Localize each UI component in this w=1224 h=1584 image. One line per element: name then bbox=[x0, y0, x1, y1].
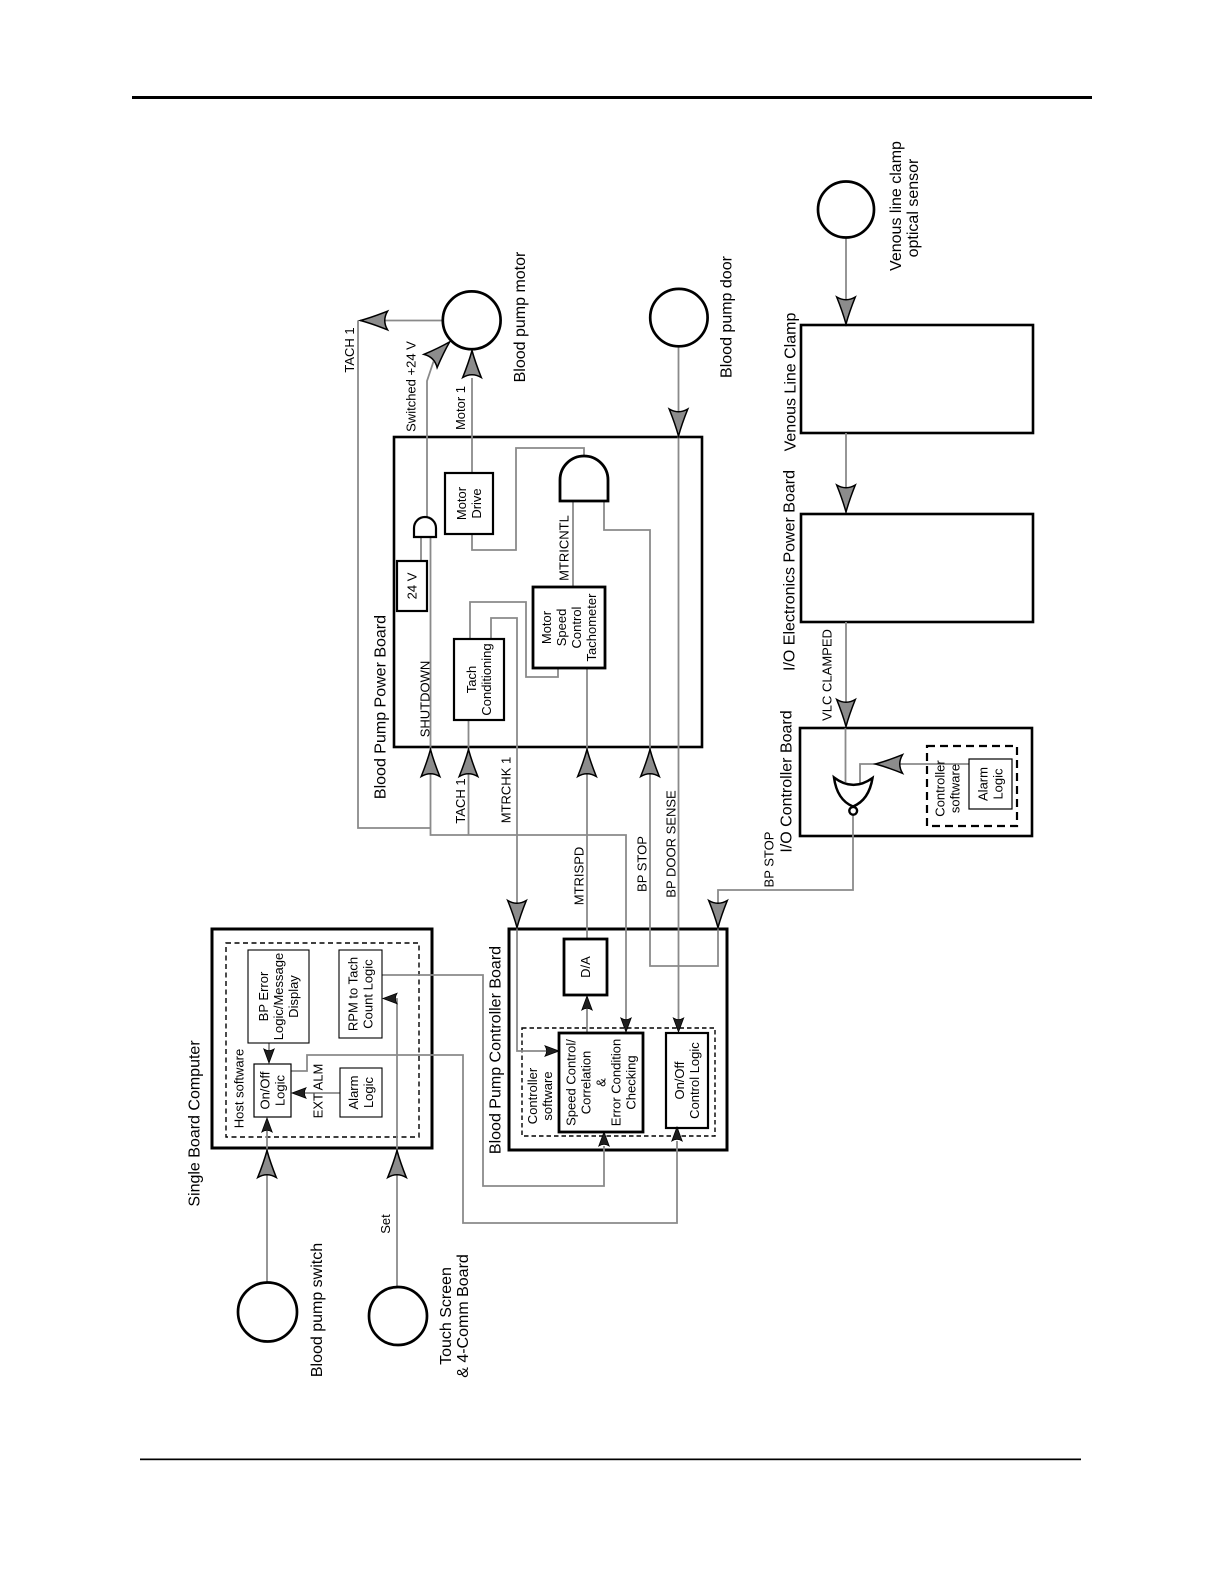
box: Speed Control/Correlation and Error Condition Checking bbox=[559, 1033, 643, 1132]
svg-text:I/O Controller Board: I/O Controller Board bbox=[779, 710, 796, 852]
dashed box: Controller software (I/O controller board) bbox=[927, 746, 1017, 826]
svg-text:MTRCHK 1: MTRCHK 1 bbox=[499, 757, 514, 823]
arrowhead: Switched +24 V into motor (points up-right) bbox=[424, 335, 456, 367]
svg-text:Controller: Controller bbox=[933, 760, 948, 817]
top rule bbox=[132, 96, 1092, 99]
board: I/O Controller Board bbox=[800, 728, 1032, 836]
board: I/O Electronics Power Board bbox=[801, 514, 1033, 622]
svg-text:Conditioning: Conditioning bbox=[479, 643, 494, 715]
box: Motor Speed Control Tachometer bbox=[533, 587, 605, 668]
wire: BP Error to On/Off Logic bbox=[268, 1043, 270, 1052]
svg-text:Set: Set bbox=[378, 1214, 393, 1234]
wire: Venous Line Clamp to I/O Electronics Power Board bbox=[845, 433, 847, 488]
svg-text:Blood Pump Power Board: Blood Pump Power Board bbox=[373, 615, 390, 799]
svg-text:Alarm: Alarm bbox=[976, 767, 991, 801]
svg-text:Single Board Computer: Single Board Computer bbox=[187, 1040, 204, 1207]
circle: Venous line clamp optical sensor bbox=[818, 182, 874, 238]
box: Alarm Logic (I/O controller board) bbox=[969, 759, 1012, 809]
svg-text:BP STOP: BP STOP bbox=[635, 836, 650, 892]
arrowhead: TACH 1 into vertical (points left) bbox=[361, 311, 388, 330]
arrowhead: Set into RPM to Tach Count Logic (points left) bbox=[383, 993, 397, 1003]
svg-text:MTRISPD: MTRISPD bbox=[572, 847, 587, 906]
svg-text:Controller: Controller bbox=[525, 1067, 540, 1124]
arrowhead: Alarm into On/Off Logic (points left) bbox=[292, 1088, 306, 1098]
arrowhead: BP Error into On/Off Logic (points down) bbox=[264, 1049, 274, 1063]
arrowhead: door into power board (points down) bbox=[669, 409, 688, 436]
dashed box: Controller software (controller board) bbox=[522, 1028, 715, 1136]
wire: BP STOP net bbox=[604, 501, 853, 966]
wire: Set (touch screen to RPM logic) bbox=[395, 999, 397, 1288]
circle: Blood pump door bbox=[650, 289, 707, 346]
connector: 24 V bullet bbox=[414, 517, 436, 537]
svg-text:D/A: D/A bbox=[578, 956, 593, 978]
box: On/Off Logic bbox=[254, 1064, 291, 1117]
wire: Alarm Logic to NOR gate bbox=[860, 764, 969, 783]
wire: RPM to Tach Count Logic to Speed Control bbox=[382, 975, 604, 1186]
arrowhead: Motor 1 into motor (points up) bbox=[463, 351, 482, 378]
svg-text:TACH 1: TACH 1 bbox=[342, 327, 357, 372]
svg-text:Blood pump switch: Blood pump switch bbox=[309, 1243, 326, 1377]
arrowhead: MTRISPD into power board (points up) bbox=[578, 750, 597, 777]
arrowhead: door sense into On/Off Control (points down) bbox=[673, 1018, 683, 1032]
arrowhead: BP STOP into power board (points up) bbox=[641, 750, 660, 777]
wire: On/Off Logic to On/Off Control Logic bbox=[291, 1055, 677, 1223]
wire: 24 V bullet to 24 V box bbox=[420, 537, 422, 561]
arrowhead: Alarm Logic to NOR gate (points left) bbox=[876, 755, 903, 774]
svg-text:On/Off: On/Off bbox=[258, 1071, 273, 1109]
board: Venous Line Clamp bbox=[801, 325, 1033, 433]
svg-text:VLC CLAMPED: VLC CLAMPED bbox=[820, 629, 835, 721]
box: On/Off Control Logic bbox=[666, 1033, 708, 1128]
wire: MTRISPD (Motor Speed Control to D/A) bbox=[586, 668, 588, 939]
box: D/A bbox=[564, 939, 607, 995]
svg-text:Correlation: Correlation bbox=[579, 1051, 594, 1115]
svg-text:Control: Control bbox=[569, 606, 584, 648]
svg-text:Motor 1: Motor 1 bbox=[453, 386, 468, 430]
wire: Alarm Logic to On/Off Logic bbox=[303, 1092, 340, 1094]
box: 24 V bbox=[397, 561, 427, 611]
svg-text:MTRICNTL: MTRICNTL bbox=[557, 515, 572, 581]
svg-text:EXT ALM: EXT ALM bbox=[311, 1064, 326, 1119]
svg-text:24 V: 24 V bbox=[405, 572, 420, 599]
svg-text:Error Condition: Error Condition bbox=[609, 1039, 624, 1126]
arrowhead: BP STOP into controller board (points down) bbox=[709, 901, 728, 928]
wire: Switched +24 V bbox=[427, 362, 434, 518]
box: BP Error Logic/Message Display bbox=[248, 950, 309, 1043]
board: Blood Pump Power Board bbox=[394, 437, 702, 747]
wire: D/A to Speed Control/Correlation bbox=[586, 1009, 588, 1033]
box: Tach Conditioning bbox=[454, 639, 504, 720]
arrowhead: MTRCHK 1 into controller board (points down) bbox=[508, 901, 527, 928]
svg-text:Motor: Motor bbox=[539, 610, 554, 644]
svg-text:Logic: Logic bbox=[991, 768, 1006, 800]
svg-text:Logic: Logic bbox=[273, 1074, 288, 1106]
wire: MTRICNTL gate to Motor Speed Control bbox=[572, 501, 574, 587]
circle: Blood pump motor bbox=[443, 291, 501, 349]
bottom rule bbox=[140, 1459, 1081, 1461]
svg-text:Motor: Motor bbox=[454, 486, 469, 520]
svg-text:Count Logic: Count Logic bbox=[361, 959, 376, 1029]
svg-text:Host software: Host software bbox=[232, 1049, 247, 1128]
svg-text:&: & bbox=[594, 1078, 609, 1087]
svg-text:Control Logic: Control Logic bbox=[687, 1042, 702, 1119]
board: Single Board Computer bbox=[212, 929, 432, 1148]
svg-text:Venous line clamp: Venous line clamp bbox=[888, 141, 905, 271]
wire: MTRCHK 1 bbox=[491, 618, 546, 1051]
svg-text:software: software bbox=[540, 1071, 555, 1120]
svg-text:Tachometer: Tachometer bbox=[584, 593, 599, 662]
wire: VLC sensor to Venous Line Clamp bbox=[845, 238, 847, 300]
dashed box: Host software bbox=[226, 943, 419, 1137]
svg-text:Drive: Drive bbox=[469, 488, 484, 518]
svg-text:TACH 1: TACH 1 bbox=[453, 778, 468, 823]
wire: Tach Conditioning to Motor Speed Control bbox=[470, 602, 558, 677]
arrowhead: into Speed Control bottom (points up) bbox=[599, 1132, 609, 1146]
gate: NOR gate (I/O controller board) bbox=[834, 778, 873, 807]
wire: TACH 1 net (motor to SHUTDOWN/Tach Conditioning/Speed Control) bbox=[358, 321, 626, 1021]
wire: BP DOOR SENSE bbox=[678, 346, 680, 1020]
arrowhead: into power board at SHUTDOWN (points up) bbox=[421, 750, 440, 777]
svg-text:RPM to Tach: RPM to Tach bbox=[346, 957, 361, 1031]
svg-text:I/O Electronics Power Board: I/O Electronics Power Board bbox=[782, 470, 799, 671]
svg-text:Blood pump motor: Blood pump motor bbox=[512, 251, 529, 382]
arrowhead: TACH 1 into power board (points up) bbox=[459, 750, 478, 777]
svg-text:Venous Line Clamp: Venous Line Clamp bbox=[783, 313, 800, 452]
svg-text:Tach: Tach bbox=[464, 666, 479, 693]
svg-text:BP Error: BP Error bbox=[256, 971, 271, 1021]
svg-text:& 4-Comm Board: & 4-Comm Board bbox=[455, 1254, 472, 1378]
wire: VLC CLAMPED bbox=[845, 622, 848, 782]
box: RPM to Tach Count Logic bbox=[339, 950, 382, 1038]
arrowhead: MTRCHK 1 into Speed Control (points right) bbox=[545, 1046, 559, 1056]
svg-text:Touch Screen: Touch Screen bbox=[438, 1267, 455, 1365]
svg-text:Logic: Logic bbox=[361, 1076, 376, 1108]
arrowhead: TACH 1 into Speed Control top (points down) bbox=[621, 1018, 631, 1032]
svg-text:Logic/Message: Logic/Message bbox=[271, 953, 286, 1040]
arrowhead: VLC CLAMPED into I/O Controller Board (points down) bbox=[837, 700, 856, 727]
wire: blood pump switch to On/Off Logic bbox=[266, 1131, 268, 1282]
svg-text:Blood pump door: Blood pump door bbox=[719, 255, 736, 378]
svg-text:Blood Pump Controller Board: Blood Pump Controller Board bbox=[488, 946, 505, 1154]
svg-text:On/Off: On/Off bbox=[672, 1061, 687, 1099]
wire: Motor 1 bbox=[471, 378, 473, 473]
wire: Motor Drive to MTRICNTL gate bbox=[472, 448, 584, 550]
box: Motor Drive bbox=[445, 473, 493, 534]
arrowhead: into On/Off Control bottom (points up) bbox=[672, 1127, 682, 1141]
gate: MTRICNTL arch bbox=[560, 456, 608, 501]
svg-text:Alarm: Alarm bbox=[346, 1076, 361, 1110]
svg-text:Speed: Speed bbox=[554, 609, 569, 647]
box: Alarm Logic (host software) bbox=[340, 1068, 382, 1117]
svg-text:BP DOOR SENSE: BP DOOR SENSE bbox=[664, 790, 679, 898]
svg-text:optical sensor: optical sensor bbox=[905, 158, 922, 257]
arrowhead: into I/O Electronics Power Board (points down) bbox=[837, 485, 856, 512]
board: Blood Pump Controller Board bbox=[509, 929, 727, 1150]
svg-text:Speed Control/: Speed Control/ bbox=[564, 1039, 579, 1126]
circle: Blood pump switch bbox=[238, 1283, 297, 1342]
svg-text:SHUTDOWN: SHUTDOWN bbox=[418, 661, 433, 738]
circle: Touch Screen and 4-Comm Board bbox=[369, 1287, 427, 1345]
svg-text:Checking: Checking bbox=[624, 1055, 639, 1109]
arrowhead: switch into On/Off Logic (points up) bbox=[262, 1118, 272, 1132]
svg-text:software: software bbox=[948, 764, 963, 813]
svg-text:Display: Display bbox=[286, 975, 301, 1018]
arrowhead: into D/A (points up) bbox=[582, 996, 592, 1010]
arrowhead: Set into Single Board Computer (points up) bbox=[388, 1151, 407, 1178]
svg-text:Switched +24 V: Switched +24 V bbox=[404, 341, 419, 432]
arrowhead: switch into Single Board Computer (points up) bbox=[258, 1151, 277, 1178]
gate: NOR bubble bbox=[849, 807, 857, 815]
arrowhead: sensor into Venous Line Clamp (points down) bbox=[837, 297, 856, 324]
svg-text:BP STOP: BP STOP bbox=[762, 832, 777, 888]
